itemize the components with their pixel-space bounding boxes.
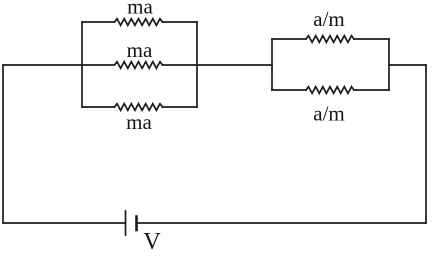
battery V: short plate (negative) <box>135 217 138 231</box>
wire: right edge vertical <box>425 65 427 223</box>
wire: a/m top branch left lead <box>272 38 306 40</box>
wire: a/m top branch right lead <box>354 38 389 40</box>
wire: middle node from left edge to left resistor bank <box>3 64 82 66</box>
wire: left bus vertical of ma bank <box>81 22 83 107</box>
svg-text:a/m: a/m <box>313 7 345 31</box>
wire: a/m bottom branch left lead <box>272 89 306 91</box>
wire: bottom run from battery to left edge <box>3 222 126 224</box>
svg-text:V: V <box>143 229 161 253</box>
wire: left bus vertical of a/m bank <box>271 39 273 90</box>
wire: left edge vertical <box>2 65 4 223</box>
wire: a/m bottom branch right lead <box>354 89 389 91</box>
resistor R3 ma (bottom branch) <box>115 104 163 111</box>
wire: bottom branch left lead <box>82 106 115 108</box>
wire: right bus vertical of a/m bank <box>388 39 390 90</box>
wire: bottom run from right edge to battery positive <box>138 222 427 224</box>
wire: right bank to right edge <box>389 64 426 66</box>
svg-text:a/m: a/m <box>313 101 345 125</box>
wire: middle branch left lead <box>82 64 115 66</box>
resistor R2 ma (middle branch) <box>115 62 163 69</box>
wire: top branch right lead <box>163 21 198 23</box>
resistor R5 a/m (bottom branch) <box>306 87 354 94</box>
svg-text:ma: ma <box>126 110 152 134</box>
wire: middle branch right lead <box>163 64 198 66</box>
battery V: long plate (positive) <box>125 211 127 235</box>
svg-text:ma: ma <box>127 38 153 62</box>
svg-text:ma: ma <box>127 0 153 19</box>
wire: bottom branch right lead <box>163 106 198 108</box>
resistor R1 ma (top branch) <box>115 19 163 26</box>
wire: top branch left lead <box>82 21 115 23</box>
wire: middle node between resistor banks <box>197 64 272 66</box>
resistor R4 a/m (top branch) <box>306 36 354 43</box>
wire: right bus vertical of ma bank <box>196 22 198 107</box>
